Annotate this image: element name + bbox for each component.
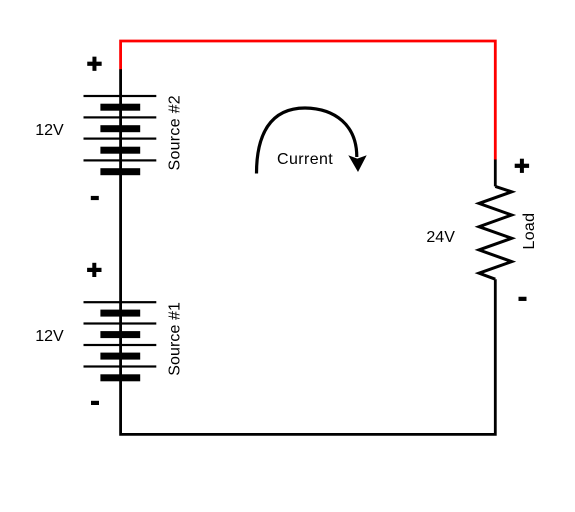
battery source #1: [84, 301, 157, 381]
wire: top red conductor from Source #2 + terminal to Load + terminal: [121, 41, 496, 160]
minus sign source #1: [91, 401, 99, 405]
current arrowhead: [348, 155, 366, 172]
minus sign source #2: [91, 196, 99, 200]
minus sign load: [519, 297, 527, 301]
svg-text:Current: Current: [277, 151, 333, 168]
battery B2 plate long 1: [84, 95, 157, 97]
plus sign source #1: [87, 263, 101, 277]
battery B2 plate long 2: [84, 116, 157, 118]
svg-text:12V: 12V: [35, 122, 64, 139]
resistor R load zigzag: [479, 186, 512, 279]
battery B2 plate short 2: [100, 125, 140, 132]
battery source #2: [84, 95, 157, 175]
svg-text:Source #1: Source #1: [167, 302, 184, 376]
battery B2 plate short 4: [100, 168, 140, 175]
battery B1 plate short 4: [100, 374, 140, 381]
battery B1 plate long 4: [84, 365, 157, 367]
battery B1 plate long 3: [84, 344, 157, 346]
battery B1 plate long 1: [84, 301, 157, 303]
wire: right conductor segment between red wire and resistor top: [494, 160, 497, 187]
battery B1 plate short 3: [100, 353, 140, 360]
battery B2 plate short 3: [100, 147, 140, 154]
battery B2 plate short 1: [100, 104, 140, 111]
battery B2 plate long 3: [84, 138, 157, 140]
plus sign source #2: [87, 57, 101, 71]
battery B2 plate long 4: [84, 159, 157, 161]
battery B1 plate short 2: [100, 331, 140, 338]
battery B1 plate short 1: [100, 310, 140, 317]
battery B1 plate long 2: [84, 322, 157, 324]
svg-text:Load: Load: [521, 213, 538, 250]
svg-text:24V: 24V: [426, 229, 455, 246]
svg-text:Source #2: Source #2: [167, 95, 184, 170]
current direction arc arrow: [257, 108, 357, 174]
wire: left conductor / bottom conductor / right lower conductor: [121, 69, 496, 434]
plus sign load: [515, 159, 529, 173]
svg-text:12V: 12V: [35, 328, 64, 345]
